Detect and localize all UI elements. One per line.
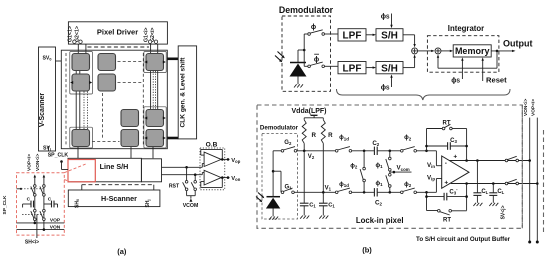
SP_CLK wire to Line S/H [60,160,68,169]
Line S/H last cell box [141,159,161,182]
svg-text:LPF: LPF [343,64,362,75]
capacitor C1 left [300,151,309,216]
Vdda rail [304,115,323,120]
Pixel Driver block [68,22,167,44]
node V1 wire [294,143,336,193]
pixel column outline A (bottom) [70,127,93,148]
capacitor CL left [473,161,481,203]
red detail callout box [17,173,65,235]
row-select arrows column D row1 [144,61,166,64]
pixel array box [61,50,167,149]
output switch on VOP<i> wire [34,209,37,212]
PD2 node wiring [272,151,281,197]
Memory block [453,45,491,57]
svg-text:RT: RT [443,218,451,224]
sample switch on VON<i> wire [43,185,46,188]
pixel column outline A (rows1-2) [70,52,93,95]
svg-text:VON<i>: VON<i> [35,153,41,171]
svg-text:C1: C1 [309,203,316,209]
svg-text:Line S/H: Line S/H [100,162,129,171]
select switch SV<j> top [505,159,508,162]
pixel D4 [146,130,164,147]
node V2 wire [297,143,336,152]
svg-text:C3: C3 [450,138,457,144]
wire phi1d to C2 bottom [352,191,375,194]
svg-text:Demodulator: Demodulator [279,5,334,15]
switch phi-bar (bottom) [308,65,311,68]
svg-text:G2<1>: G2<1> [74,26,80,42]
svg-text:+: + [444,179,448,186]
red callout diagonal upper [64,164,87,173]
arrow sum2 to Memory [441,50,453,52]
svg-text:ϕ: ϕ [314,56,319,63]
pixel A1 [72,54,90,71]
output switch on VON<i> wire [43,209,46,212]
svg-text:(a): (a) [117,247,127,256]
light arrows into PD1 [275,52,285,63]
Output arrow [491,50,515,52]
ground (C1 right) [319,216,322,219]
red callout diagonal lower [64,180,70,182]
svg-text:R: R [311,132,316,139]
svg-text:V2: V2 [308,154,315,160]
svg-text:CL: CL [481,189,488,195]
svg-text:+: + [453,154,457,161]
sample switches gate dashed line [21,188,44,190]
amp output wire top [449,159,529,162]
row-select arrows column D row3 [144,117,166,120]
Vcom node [390,171,412,174]
resistor R left [302,120,306,144]
sample switch on VOP<i> wire [34,185,37,188]
amplifier A1 [442,154,469,189]
op-amp buffer 1 (Vop) [201,149,230,166]
svg-text:R: R [328,132,333,139]
svg-text:SH<i>: SH<i> [25,240,39,246]
column C output wire [130,147,132,159]
S/H block 1 [376,29,403,42]
svg-text:Memory: Memory [455,46,490,56]
switch phi1d top [335,150,338,153]
svg-text:ϕS: ϕS [451,78,460,85]
svg-text:VON<i>: VON<i> [523,98,529,116]
pixel column outline D (row1) [144,52,166,73]
photodiode PD2 [266,197,280,217]
svg-text:(b): (b) [362,246,372,255]
svg-text:G2: G2 [284,140,292,146]
pixel B2 [98,74,116,91]
summing node 2 [435,48,441,54]
wire C2 to phi2 top [377,150,402,153]
row-select arrows column D row4 [144,137,166,140]
O.B dotted box [200,148,225,190]
svg-text:C: C [48,197,52,203]
svg-text:CLK gen. & Level shift: CLK gen. & Level shift [179,57,186,128]
svg-text:Output: Output [503,39,533,49]
pixel column outline D (rows3-4) [144,107,166,148]
VON<i> column line [528,118,531,244]
dashed continuation line under driver [88,46,150,48]
svg-text:Lock-in pixel: Lock-in pixel [356,216,404,225]
PD1 node wiring [298,34,308,66]
svg-text:S/H: S/H [381,64,398,75]
pixel D1 [146,54,164,71]
H-Scanner block [68,190,160,207]
RST switches to VCOM [183,167,197,198]
svg-text:G1<1>: G1<1> [68,26,74,42]
capacitor C (right) [44,201,58,208]
Reset into Memory [482,57,508,84]
wire switch2 to LPF2 [325,65,339,67]
summing node 1 [403,35,418,68]
switch phi2 bottom [401,191,404,194]
svg-text:Demodulator: Demodulator [260,124,299,131]
svg-text:SV<j>: SV<j> [500,205,506,219]
Integrator dashed box [427,36,499,72]
wire switch1 to LPF1 [325,33,339,35]
svg-text:Reset: Reset [486,76,507,85]
capacitor C (left) [23,201,34,208]
bus connector array to CLK top [167,57,178,60]
arrow LPF1 to S/H1 [366,34,376,36]
light arrows into PD2 [256,193,264,203]
svg-text:C: C [27,197,31,203]
ground (PD1) [294,84,297,87]
wire C2 to phi2 bottom [377,191,402,194]
ground (CL right) [489,203,492,206]
capacitor C2 bottom [373,188,375,196]
demodulator dashed box (pixel) [262,134,298,220]
svg-text:VCOM: VCOM [183,203,199,209]
svg-text:ϕS: ϕS [381,14,390,21]
phiS into Memory [451,57,463,84]
output bus wires Line S/H to O.B [162,164,205,177]
VCOM supply arrow [189,199,192,202]
LPF block 2 [338,62,366,75]
select switch SV<j> bottom [505,182,508,185]
wire SVj to array [48,146,50,151]
svg-text:ϕ: ϕ [311,24,316,31]
H-Scanner select dashed line [82,185,154,190]
svg-text:Integrator: Integrator [448,24,484,33]
column A wires [76,53,87,158]
column D wires [151,53,158,158]
arrow sum1 to sum2 [418,50,435,52]
phi2 equalize switch [360,151,365,193]
array inner dashed lines (ellipsis) [66,53,144,146]
svg-text:Von: Von [231,176,240,182]
phi1 switch upper [386,151,391,172]
capacitor C2 top [373,147,375,155]
column boundary dashed line left [521,105,523,228]
integrator feedback path [437,50,499,69]
phiS control bottom [381,74,393,91]
wires driver to pixel columns [78,44,157,53]
svg-text:SP_CLK: SP_CLK [2,195,8,214]
VOP<i> column line [536,118,539,244]
feedback top: C3 + RT [425,124,468,160]
Line S/H block [68,158,141,182]
svg-text:V-Scanner: V-Scanner [39,93,46,128]
svg-text:S/H: S/H [381,31,398,42]
capacitor CL right [489,184,497,203]
svg-text:RT: RT [443,121,451,127]
row-select arrows column A row2 [70,81,92,84]
svg-text:H-Scanner: H-Scanner [101,194,137,203]
pixel D3 [146,110,164,127]
VOP rail [17,222,65,225]
resistor R right [321,120,325,144]
svg-text:SVj: SVj [43,146,51,152]
amp output wire bottom [451,182,538,185]
ground (PD2) [269,217,272,220]
V-Scanner block [39,47,56,151]
driver output pins (circles) [73,40,158,43]
Lock-in pixel dashed box [257,105,522,228]
op-amp buffer 2 (Von) [201,170,230,187]
phiS control top [381,14,393,29]
feedback bottom: C3 + RT [425,184,468,216]
wire phi1d to C2 top [352,150,375,153]
svg-text:VOP: VOP [50,218,61,224]
output switches gate dashed line [22,213,44,215]
cell wire VON<i> (right column line) [43,175,46,230]
svg-text:G1<i>: G1<i> [144,28,150,42]
switch G1 [281,191,284,194]
Demodulator dashed box (top) [282,16,331,91]
red highlighted cell [68,160,95,182]
svg-text:O.B: O.B [206,141,218,148]
wire SV0 to array [56,60,62,62]
svg-text:To S/H circuit and Output Buff: To S/H circuit and Output Buffer [416,236,511,243]
svg-text:Vop: Vop [231,158,240,164]
phi1 switch lower [386,172,391,192]
svg-text:VOP<i>: VOP<i> [27,154,33,171]
switch G2 [281,150,284,153]
pixel C4 [121,130,139,147]
svg-text:VOP<i>: VOP<i> [531,99,537,116]
switch phi2 top [401,150,404,153]
svg-text:VON: VON [50,224,61,230]
VON rail [17,228,65,231]
svg-text:C1: C1 [328,203,335,209]
svg-text:V1: V1 [325,186,332,192]
SP_CLK gate node [17,188,23,190]
CLK gen. & Level shift block [178,46,196,139]
pixel B1 [98,54,116,71]
switch phi1d bottom [335,191,338,194]
switch phi (top) [308,33,311,36]
pixel A4 [72,130,90,147]
svg-text:G1: G1 [284,184,292,190]
bus connector array to CLK bottom [167,137,178,140]
svg-text:SP_CLK: SP_CLK [48,152,69,158]
capacitor C1 right [319,192,328,215]
svg-text:ϕS: ϕS [381,85,390,92]
svg-text:LPF: LPF [343,31,362,42]
wire phi2 to Vip jog [417,179,442,194]
LPF block 1 [338,29,366,42]
wire phi2 to Vin jog [417,150,442,166]
arrow LPF2 to S/H2 [366,66,376,68]
pixel A2 [72,74,90,91]
photodiode PD1 [290,63,307,85]
svg-text:CL: CL [497,189,504,195]
svg-text:SHj: SHj [145,200,151,208]
svg-text:Vdda(LPF): Vdda(LPF) [292,108,327,115]
pixel C3 [121,110,139,127]
label phi-bar [314,54,319,63]
S/H block 2 [376,62,403,75]
cell wire VOP<i> (left column line) [34,175,37,223]
svg-text:Pixel Driver: Pixel Driver [97,27,138,36]
underbrace [337,89,511,100]
svg-text:RST: RST [169,184,180,190]
ground (CL left) [473,203,476,206]
column boundary dashed line right [543,130,545,235]
ground (C1 left) [300,216,303,219]
svg-text:-: - [445,160,447,167]
SH<i> control line [36,214,38,238]
